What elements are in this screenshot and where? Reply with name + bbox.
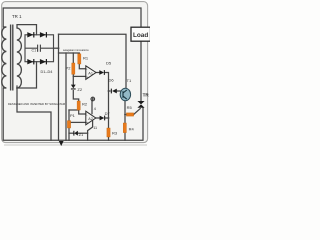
- svg-text:D5: D5: [106, 61, 112, 66]
- diode D7: [100, 116, 106, 121]
- svg-text:DESIGNED AND INVENTED BY SWAGA: DESIGNED AND INVENTED BY SWAGATAM: [8, 102, 66, 106]
- preset P2: [72, 63, 75, 74]
- transformer TR1: [2, 25, 22, 91]
- transistor T1: [120, 88, 130, 100]
- wire ground vertical: [58, 34, 60, 140]
- resistor R5: [126, 113, 133, 116]
- outer frame: [2, 2, 148, 143]
- zener Z2: [71, 85, 76, 90]
- wire A1 output to D5: [96, 72, 99, 74]
- capacitor C1: [25, 45, 54, 52]
- ground arrow: [59, 141, 64, 146]
- wire vertical P1 column: [68, 110, 70, 121]
- wire P1 bottom to rail: [68, 128, 70, 140]
- wire bridge DC+ output: [54, 47, 59, 49]
- svg-text:R3: R3: [112, 131, 118, 136]
- load box: [131, 27, 151, 41]
- wire A2 output to D7: [96, 117, 100, 119]
- wire D7 to column: [105, 117, 108, 119]
- wire load to triac MT2: [140, 41, 142, 101]
- diode D4: [40, 59, 46, 64]
- op-amp A2: [86, 111, 96, 125]
- op-amp A1: [86, 66, 96, 80]
- wire Z1 leads: [69, 132, 74, 134]
- svg-text:R2: R2: [82, 102, 88, 107]
- wire D6 branch to T1 base: [109, 90, 111, 92]
- junction dots: [58, 47, 60, 49]
- svg-text:Load: Load: [133, 32, 148, 39]
- wire P1 top to R2 bottom node: [69, 109, 79, 111]
- svg-text:TR: TR: [143, 93, 150, 98]
- preset P1 wiper arrow: [68, 121, 70, 124]
- diode D3: [27, 59, 33, 64]
- svg-text:swagatam innovations: swagatam innovations: [63, 48, 89, 52]
- wire triac gate: [134, 109, 141, 115]
- wire supply horizontal: [59, 52, 80, 55]
- bridge rectifier D1-D4: [25, 35, 54, 62]
- svg-text:R1: R1: [83, 56, 89, 61]
- svg-text:A1: A1: [88, 71, 93, 75]
- wire top rail: [3, 8, 141, 27]
- wire R5 left lead: [125, 114, 126, 116]
- transformer secondary winding: [17, 28, 22, 88]
- supply node symbol: [91, 97, 95, 101]
- svg-text:R5: R5: [127, 105, 133, 110]
- resistor R4: [123, 123, 126, 133]
- svg-text:+: +: [86, 75, 88, 79]
- svg-text:T1: T1: [127, 78, 132, 83]
- svg-text:4: 4: [94, 107, 96, 111]
- resistor R3: [107, 128, 110, 137]
- svg-text:Z2: Z2: [77, 87, 82, 92]
- wire secondary top lead to bridge: [17, 25, 37, 35]
- diode D5: [99, 70, 105, 75]
- wire A2 non-inverting input: [71, 121, 86, 123]
- diode D6: [111, 89, 117, 94]
- diode D2: [40, 32, 46, 37]
- svg-text:A2: A2: [88, 117, 93, 121]
- wire A2 pin11 stub to ground: [88, 121, 93, 141]
- svg-text:C1: C1: [32, 48, 37, 52]
- resistor R1: [78, 54, 81, 64]
- wire R1 bottom to A1 inverting input: [79, 64, 86, 69]
- wire secondary bottom lead / ground path: [17, 86, 51, 140]
- zener Z1: [73, 131, 78, 136]
- svg-text:R4: R4: [129, 127, 135, 132]
- svg-text:D1–D4: D1–D4: [41, 70, 53, 74]
- svg-text:D7: D7: [105, 111, 111, 116]
- svg-text:TR 1: TR 1: [12, 14, 22, 19]
- svg-text:P2: P2: [66, 66, 72, 71]
- wire V+ top rail of control box: [59, 34, 127, 89]
- diode D1: [27, 32, 33, 37]
- wire D5 to down column: [105, 73, 109, 141]
- wire secondary to bridge bottom: [17, 62, 37, 88]
- transformer primary winding: [2, 27, 7, 88]
- wire vertical B: [65, 53, 67, 140]
- resistor R2: [77, 101, 80, 110]
- wire Z2 to R2 top: [73, 91, 78, 101]
- transformer core: [10, 25, 12, 91]
- preset P1: [67, 121, 70, 128]
- wire primary bottom lead and bottom rail: [3, 88, 143, 140]
- wire P2/Z2 column: [72, 53, 74, 63]
- wire R2 bottom to A2 inverting input: [79, 110, 86, 114]
- wire P2 bottom to A1 non-inverting input: [73, 75, 86, 77]
- svg-text:P1: P1: [70, 113, 76, 118]
- svg-text:Z1: Z1: [79, 132, 84, 137]
- svg-text:11: 11: [93, 126, 97, 130]
- triac TR: [137, 101, 144, 108]
- shadow under frame: [4, 144, 147, 146]
- svg-text:D6: D6: [109, 78, 115, 83]
- wire T1 emitter down: [124, 101, 126, 141]
- svg-text:+: +: [86, 121, 88, 125]
- wire A2 pin4 stub: [91, 101, 93, 114]
